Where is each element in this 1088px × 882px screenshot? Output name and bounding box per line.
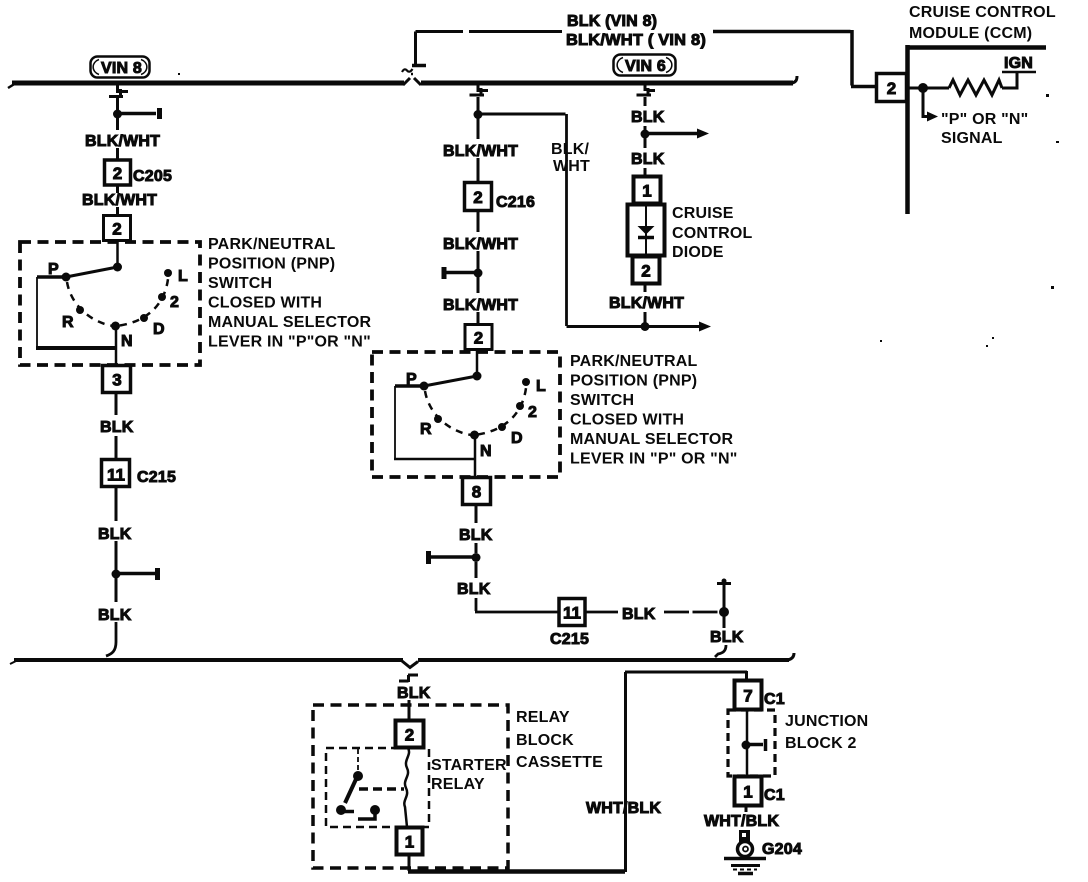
resistor pull-up to IGN	[949, 80, 1002, 95]
svg-text:PARK/NEUTRAL: PARK/NEUTRAL	[208, 236, 335, 253]
svg-text:BLK/WHT: BLK/WHT	[82, 192, 157, 209]
terminator bar of lower stub	[155, 568, 160, 580]
svg-text:2: 2	[887, 79, 896, 98]
bus lower ground rail	[14, 658, 789, 662]
bus top rail right end hook	[792, 76, 797, 83]
connector C215 pin 11 middle	[559, 599, 585, 626]
tick fuse mark on middle drop	[470, 88, 489, 95]
node relay contact C	[370, 805, 380, 815]
svg-text:BLK: BLK	[98, 526, 132, 543]
svg-text:LEVER IN "P" OR "N": LEVER IN "P" OR "N"	[570, 451, 738, 468]
node junction dot diode top	[641, 130, 650, 139]
node relay contact B	[336, 805, 346, 815]
wire stub branch left from mid junction	[446, 271, 478, 275]
svg-text:WHT/BLK: WHT/BLK	[704, 813, 779, 830]
contact N switch 2	[470, 431, 479, 440]
ground G204 bars	[724, 857, 766, 861]
wire branch right to BLK/WHT riser	[478, 113, 566, 116]
wire below C216	[477, 210, 480, 232]
relay mechanical link dashed	[359, 787, 404, 791]
wire wiper feed inside switch 1	[116, 240, 119, 267]
label block PNP switch 2	[570, 353, 738, 468]
wire step joint below lower bus	[399, 675, 418, 682]
tick fuse mark on left column drop	[109, 89, 128, 97]
wire right of C215	[585, 611, 618, 614]
svg-text:SIGNAL: SIGNAL	[941, 130, 1003, 147]
relay coil wavy lead	[404, 748, 409, 827]
svg-text:BLK: BLK	[710, 629, 744, 646]
wire dashes to junction	[664, 611, 723, 614]
wire below pin 2	[644, 284, 647, 292]
node junction dot at x724	[719, 607, 729, 617]
svg-text:1: 1	[743, 783, 752, 802]
CCM module U1 border	[907, 45, 1046, 214]
wire BLK/WHT to pin 2	[477, 277, 480, 293]
bus top power rail	[12, 81, 793, 86]
bus lower rail left lead-in	[10, 660, 18, 664]
bus top rail bump break at x412	[403, 78, 421, 85]
wire inside junction block	[746, 710, 749, 776]
contact D switch 1	[140, 314, 148, 322]
ground G204 grommet ring	[738, 842, 753, 857]
node VIN 8 flag box	[91, 57, 150, 78]
connector C215 pin 11 left column	[102, 460, 130, 487]
label cruise control module	[909, 4, 1056, 42]
svg-text:WHT: WHT	[553, 158, 590, 175]
svg-text:R: R	[62, 314, 74, 331]
starter relay K1 dashed housing	[326, 748, 429, 827]
node dot top of riser	[722, 579, 727, 584]
arrowhead P or N signal	[927, 112, 938, 122]
wire foot tick at bottom of drop	[412, 64, 426, 68]
terminator bar of stub	[157, 108, 162, 119]
svg-text:11: 11	[107, 466, 125, 485]
contact 2 switch 1	[158, 293, 166, 301]
pin 3 of PNP switch 1	[103, 366, 131, 393]
wire to junction	[644, 126, 647, 130]
svg-text:C1: C1	[764, 787, 785, 804]
dashed selector arc switch 2	[425, 388, 526, 435]
svg-text:1: 1	[405, 833, 414, 852]
node junction dot inside block	[742, 741, 751, 750]
wire stub branch right from junction	[118, 112, 157, 116]
svg-text:PARK/NEUTRAL: PARK/NEUTRAL	[570, 353, 697, 370]
svg-text:G204: G204	[762, 841, 802, 858]
wire BLK segment 2	[644, 138, 647, 148]
cruise control diode D1 housing	[628, 205, 665, 256]
pin 1 C1 of junction block 2	[735, 777, 762, 806]
wire vertical drop from feed line to bus at x415	[414, 32, 417, 65]
wire WHT/BLK riser	[624, 672, 627, 872]
svg-text:C215: C215	[137, 469, 176, 486]
pin 2 of starter relay	[396, 721, 424, 748]
svg-text:BLK: BLK	[100, 419, 134, 436]
svg-text:BLK/WHT: BLK/WHT	[443, 236, 518, 253]
contact P switch 2	[420, 382, 429, 391]
svg-text:2: 2	[473, 188, 482, 207]
junction block 2 dashed housing	[728, 710, 775, 776]
svg-text:MANUAL SELECTOR: MANUAL SELECTOR	[208, 314, 372, 331]
svg-text:CASSETTE: CASSETTE	[516, 754, 603, 771]
wire below relay pin 1	[408, 855, 411, 871]
svg-text:BLK/WHT ( VIN 8): BLK/WHT ( VIN 8)	[566, 32, 706, 49]
wire wiper feed switch 2	[476, 350, 479, 376]
svg-text:RELAY: RELAY	[431, 776, 485, 793]
wire BLK segment	[475, 562, 478, 578]
svg-text:D: D	[153, 321, 165, 338]
svg-text:C216: C216	[496, 194, 535, 211]
wire squiggle joint above bus	[402, 69, 413, 72]
wire BLK/WHT riser down	[565, 114, 568, 326]
node junction dot lower left	[112, 570, 121, 579]
svg-text:POSITION (PNP): POSITION (PNP)	[208, 256, 335, 273]
label starter relay	[431, 757, 507, 793]
svg-text:L: L	[178, 268, 188, 285]
bus lower rail right end hook	[788, 653, 794, 660]
svg-text:C205: C205	[133, 168, 172, 185]
wire stub branch left from lower junction	[430, 555, 476, 559]
wire BLK upper diode column	[644, 97, 647, 106]
wire to mid lower junction	[475, 543, 478, 553]
svg-text:MODULE (CCM): MODULE (CCM)	[909, 25, 1032, 42]
relay contact stem	[357, 749, 359, 771]
wire lower link to diode foot with arrow	[567, 325, 701, 328]
wire into foot junction	[644, 312, 647, 326]
wire to mid junction	[477, 251, 480, 269]
contact R switch 2	[434, 415, 442, 423]
node junction dot middle	[474, 269, 483, 278]
svg-text:BLK/: BLK/	[551, 141, 589, 158]
connector C216 pin 2	[465, 183, 492, 211]
contact L switch 2	[522, 378, 530, 386]
diode D1 triangle	[638, 226, 655, 235]
svg-text:BLK: BLK	[397, 685, 431, 702]
svg-text:1: 1	[642, 182, 651, 201]
arrowhead diode top branch	[697, 129, 709, 139]
svg-text:CLOSED WITH: CLOSED WITH	[208, 295, 322, 312]
svg-text:R: R	[420, 421, 432, 438]
svg-text:DIODE: DIODE	[672, 244, 724, 261]
wire to junction	[115, 541, 118, 570]
wire corner to C215 horizontal	[475, 598, 559, 612]
scan speckles	[178, 73, 1059, 347]
svg-text:STARTER: STARTER	[431, 757, 507, 774]
pin 7 C1 of junction block 2	[735, 681, 762, 710]
contact D switch 2	[498, 423, 506, 431]
connector pin 2 into CCM	[877, 74, 907, 102]
PNP switch 1 dashed housing	[20, 242, 200, 365]
relay contact C bent terminal	[358, 811, 375, 819]
wire BLK into relay cassette	[408, 700, 411, 721]
wire into PNP switch pin	[116, 207, 119, 216]
label P or N signal	[941, 111, 1028, 147]
diode D1 internal lead	[645, 204, 647, 256]
label BLK/ WHT two lines	[551, 141, 590, 175]
node junction dot diode foot	[641, 322, 650, 331]
svg-text:2: 2	[170, 294, 179, 311]
svg-text:MANUAL SELECTOR: MANUAL SELECTOR	[570, 431, 734, 448]
label block cruise control diode	[672, 205, 753, 261]
wire riser x724 with top tick	[717, 584, 731, 629]
pin 1 of starter relay	[397, 828, 423, 855]
wire WHT/BLK bottom run	[408, 869, 625, 874]
wire BLK below C215	[115, 487, 118, 521]
svg-text:N: N	[480, 443, 492, 460]
wire bottom rail to N switch 2	[394, 458, 476, 461]
wire BLK/WHT segment	[116, 118, 119, 130]
svg-text:2: 2	[405, 726, 414, 745]
diode D1 cathode bar	[638, 236, 654, 240]
stub inside block with bar	[746, 739, 766, 751]
pin 2 of cruise control diode	[633, 257, 660, 284]
switch 2 wiper arm to P	[424, 376, 477, 386]
node junction dot inside CCM	[918, 83, 928, 93]
label block PNP switch 1	[208, 236, 372, 351]
wire left rail down switch 1	[36, 277, 38, 348]
contact P switch 1	[62, 273, 71, 282]
wire middle column upper	[477, 97, 480, 111]
wire hook into lower bus	[106, 622, 116, 656]
svg-text:7: 7	[743, 687, 752, 706]
svg-text:LEVER IN "P"OR "N": LEVER IN "P"OR "N"	[208, 334, 371, 351]
svg-text:2: 2	[528, 404, 537, 421]
svg-text:BLOCK 2: BLOCK 2	[785, 735, 857, 752]
wire hook riser to lower bus	[715, 645, 726, 657]
ground G204 bolt head	[739, 830, 750, 842]
svg-text:SWITCH: SWITCH	[570, 392, 634, 409]
wire top feed line right segment to CCM	[713, 30, 876, 87]
svg-text:BLK (VIN 8): BLK (VIN 8)	[567, 13, 657, 30]
wire P contact to left rail switch 1	[37, 275, 66, 279]
svg-text:C215: C215	[550, 631, 589, 648]
contact R switch 1	[76, 306, 84, 314]
contact L switch 1	[164, 269, 172, 277]
svg-text:BLK: BLK	[631, 109, 665, 126]
wire signal branch with arrow	[923, 88, 928, 117]
svg-text:BLK/WHT: BLK/WHT	[609, 295, 684, 312]
svg-text:C1: C1	[764, 691, 785, 708]
svg-text:3: 3	[112, 371, 121, 390]
label block relay cassette	[516, 709, 603, 771]
svg-text:"P" OR "N": "P" OR "N"	[941, 111, 1028, 128]
svg-text:CLOSED WITH: CLOSED WITH	[570, 412, 684, 429]
contact N switch 1	[111, 322, 120, 331]
svg-text:IGN: IGN	[1004, 55, 1033, 72]
wire N contact down to pin 3	[115, 326, 118, 366]
svg-text:BLK/WHT: BLK/WHT	[443, 143, 518, 160]
wire BLK below pin 3	[115, 393, 118, 415]
wire resistor to IGN	[1002, 73, 1017, 88]
wire middle BLK/WHT segment	[477, 118, 480, 139]
wire bottom rail to N switch 1	[36, 346, 117, 350]
pin 1 of cruise control diode	[634, 177, 661, 204]
terminator bar of mid stub	[442, 267, 447, 279]
svg-text:POSITION (PNP): POSITION (PNP)	[570, 373, 697, 390]
terminator bar lower mid stub	[426, 551, 431, 564]
node wiper pivot switch 1	[113, 263, 122, 272]
svg-text:CRUISE: CRUISE	[672, 205, 734, 222]
bus lower rail dip break at x410	[402, 661, 418, 668]
arrowhead on link	[699, 322, 711, 332]
node wiper pivot switch 2	[473, 372, 482, 381]
svg-text:BLK: BLK	[631, 151, 665, 168]
pin 8 of PNP switch 2	[463, 478, 491, 505]
wire into C216	[477, 158, 480, 183]
wire branch arrow right	[645, 132, 698, 136]
connector C205 pin 2	[105, 160, 131, 185]
bus top rail left lead-in	[8, 83, 16, 88]
svg-text:VIN 8: VIN 8	[101, 60, 142, 77]
svg-text:BLK/WHT: BLK/WHT	[443, 297, 518, 314]
relay block cassette dashed housing	[313, 705, 508, 868]
svg-text:2: 2	[113, 164, 122, 183]
wire stub to ground	[745, 806, 748, 812]
switch 1 wiper arm to P contact	[66, 267, 118, 277]
bus top rail bump dot	[411, 73, 413, 76]
node junction dot left column	[113, 110, 122, 119]
svg-text:8: 8	[472, 483, 481, 502]
node junction dot mid lower	[472, 553, 481, 562]
svg-text:2: 2	[112, 220, 121, 239]
svg-text:SWITCH: SWITCH	[208, 275, 272, 292]
svg-text:D: D	[511, 430, 523, 447]
PNP switch 2 dashed housing	[372, 352, 560, 477]
wire into PNP 2 pin	[477, 312, 480, 325]
svg-text:BLK: BLK	[457, 581, 491, 598]
svg-text:2: 2	[641, 262, 650, 281]
svg-text:VIN 6: VIN 6	[625, 58, 666, 75]
wire top feed line BLK/BLK-WHT	[416, 30, 563, 33]
wire P to left rail switch 2	[395, 384, 424, 388]
svg-text:BLOCK: BLOCK	[516, 732, 574, 749]
wire N down to pin 8	[474, 435, 477, 478]
pin 2 of PNP switch 2	[465, 325, 492, 350]
wire drop from top bus middle column	[477, 85, 480, 92]
wire stub branch right from lower junction	[116, 572, 155, 576]
svg-text:2: 2	[474, 329, 483, 348]
pin 2 of PNP switch 1	[104, 216, 131, 241]
svg-text:WHT/BLK: WHT/BLK	[586, 800, 661, 817]
svg-text:BLK: BLK	[459, 527, 493, 544]
wire BLK to lower bus	[115, 578, 118, 602]
wire left rail down switch 2	[394, 386, 396, 459]
wire into pin 1	[644, 168, 647, 177]
relay movable arm	[345, 777, 357, 803]
svg-text:BLK/WHT: BLK/WHT	[85, 133, 160, 150]
node junction dot middle top	[474, 110, 483, 119]
contact 2 switch 2	[516, 402, 524, 410]
wire pin2 to resistor	[907, 87, 949, 90]
node relay fixed contact A	[353, 771, 363, 781]
wire into C215 left	[115, 436, 118, 460]
wire into C205	[116, 148, 119, 160]
tick fuse mark on diode drop	[637, 88, 656, 95]
svg-text:BLK: BLK	[98, 607, 132, 624]
wire BLK below pin 8	[475, 505, 478, 523]
relay contact B bar	[341, 810, 354, 814]
svg-text:BLK: BLK	[622, 606, 656, 623]
label block junction block 2	[785, 713, 868, 752]
wire top link to junction block	[625, 671, 747, 681]
svg-text:RELAY: RELAY	[516, 709, 570, 726]
node VIN 6 flag box	[614, 55, 676, 76]
svg-text:CRUISE CONTROL: CRUISE CONTROL	[909, 4, 1056, 21]
svg-text:CONTROL: CONTROL	[672, 225, 753, 242]
wire drop from top bus diode column	[644, 85, 647, 91]
wire drop from top bus to left column	[116, 85, 119, 93]
wire BLK/WHT below C205	[116, 185, 119, 193]
svg-text:11: 11	[563, 604, 581, 623]
dashed selector arc switch 1	[67, 279, 168, 326]
svg-text:L: L	[536, 378, 546, 395]
wire left column upper	[116, 98, 119, 111]
svg-text:N: N	[121, 333, 133, 350]
svg-text:JUNCTION: JUNCTION	[785, 713, 868, 730]
